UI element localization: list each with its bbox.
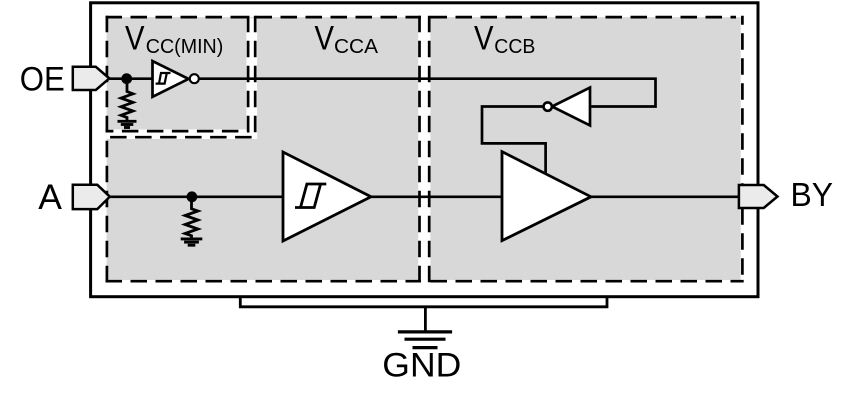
white band below VCC(MIN) box — [107, 129, 258, 139]
junction dot on OE net — [121, 73, 132, 84]
svg-text:CCA: CCA — [334, 36, 379, 58]
VCC(MIN) outer wrap dashed line — [106, 16, 256, 137]
dashed separator: VCCB left edge — [428, 16, 431, 283]
OE pin — [73, 67, 110, 90]
BY pin — [739, 185, 778, 208]
white gap of VCCA/VCCB separator — [421, 15, 428, 283]
svg-text:V: V — [125, 19, 145, 57]
wire: schmitt buffer to output buffer — [370, 195, 503, 198]
schmitt inverter U1 (OE, small) — [153, 61, 189, 97]
VCCB gray region fill — [430, 17, 740, 280]
output buffer U4 (big, VCCB) — [502, 152, 591, 241]
svg-text:BY: BY — [791, 176, 834, 213]
svg-text:A: A — [38, 177, 62, 217]
svg-text:V: V — [315, 19, 335, 57]
dashed border: bottom edge — [106, 280, 744, 283]
svg-text:V: V — [474, 19, 494, 57]
pulldown resistor R2 on A — [185, 201, 198, 238]
hysteresis glyph in U1 — [156, 73, 171, 84]
dashed border: top edge — [106, 16, 737, 19]
A pin — [73, 185, 110, 209]
wire: output buffer to BY pin — [590, 195, 742, 198]
svg-text:CCB: CCB — [494, 36, 535, 58]
ground for R1 — [118, 121, 137, 127]
VCCA gray region fill — [107, 17, 419, 280]
bubble of U1 — [190, 74, 199, 83]
inverter U2 (top right, pointing left) — [552, 88, 590, 126]
dashed border: left edge — [106, 16, 109, 283]
schmitt buffer U3 (A side, big) — [283, 152, 371, 241]
chip outline (outer solid border) — [91, 3, 758, 297]
svg-text:CC(MIN): CC(MIN) — [146, 36, 224, 58]
GND bracket tab at bottom — [240, 296, 607, 307]
hysteresis glyph in U3 — [295, 184, 326, 208]
dashed separator: VCCA right edge — [418, 16, 421, 283]
GND symbol — [398, 332, 452, 348]
ground for R2 — [181, 239, 203, 245]
svg-text:OE: OE — [20, 60, 65, 98]
pulldown resistor R1 on OE — [121, 83, 133, 120]
wire: OE pin to small inverter — [106, 77, 153, 80]
dashed border: right edge — [741, 16, 744, 283]
wire: A pin to schmitt buffer — [106, 195, 284, 198]
svg-text:GND: GND — [382, 347, 461, 385]
VCC(MIN) dashed box right+bottom edges — [106, 16, 249, 131]
GND stub wire — [424, 307, 427, 331]
wire: U2 output to enable of output buffer — [482, 107, 546, 176]
wire: OE net across to VCCB and down to inverter U2 — [197, 79, 656, 107]
white band right of VCC(MIN) box — [246, 18, 257, 139]
junction dot on A net — [187, 191, 198, 202]
bubble of U2 — [544, 102, 552, 110]
